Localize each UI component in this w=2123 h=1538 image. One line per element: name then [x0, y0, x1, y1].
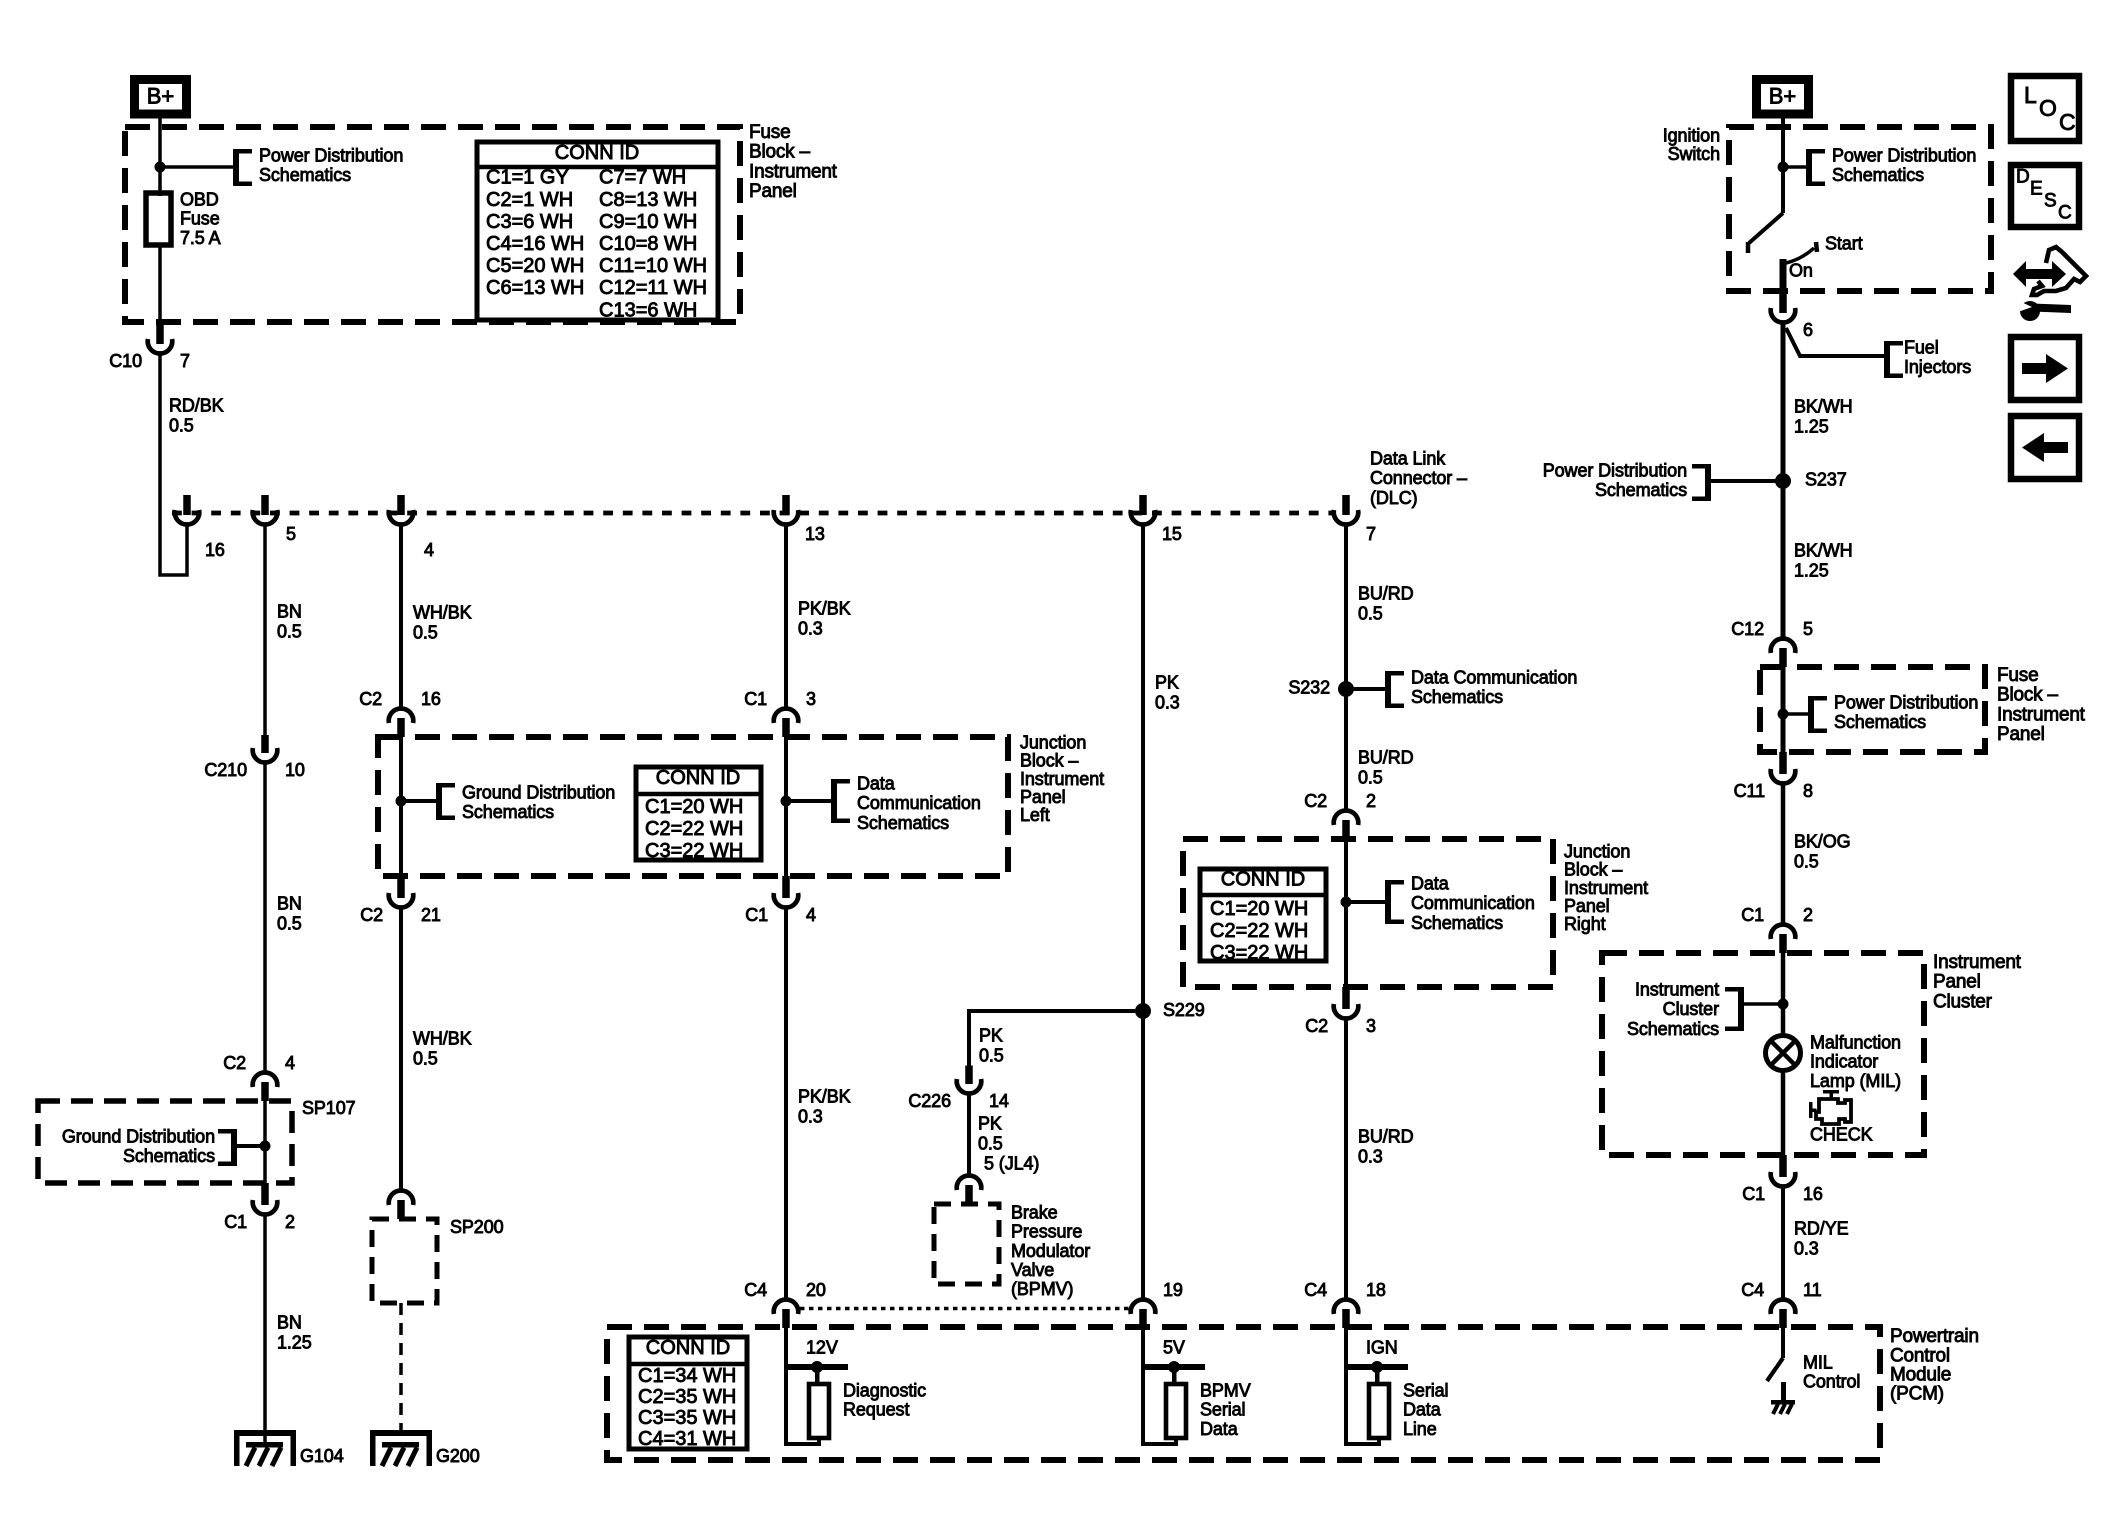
- wire: fuse block right internal: [1781, 667, 1786, 752]
- svg-text:Communication: Communication: [857, 793, 981, 813]
- BPMV component boundary (dotted): [800, 1307, 1130, 1311]
- svg-text:BN: BN: [277, 1312, 302, 1332]
- svg-text:Panel: Panel: [749, 181, 797, 202]
- connector into SP200: [397, 1200, 405, 1219]
- svg-text:Fuel: Fuel: [1904, 337, 1939, 357]
- icon: component view (double arrow, outline, wrench): [2013, 261, 2066, 287]
- DLC pin 5 connector: [261, 495, 269, 515]
- svg-text:OBD: OBD: [180, 189, 219, 209]
- connector C2 pin 4 (into SP107): [261, 1082, 269, 1101]
- svg-text:1.25: 1.25: [1794, 560, 1829, 580]
- svg-text:Valve: Valve: [1011, 1260, 1054, 1280]
- svg-text:Powertrain: Powertrain: [1890, 1326, 1979, 1347]
- svg-text:SP107: SP107: [302, 1098, 356, 1118]
- DLC pin 16 connector: [183, 495, 191, 515]
- wire: ignition feed to reference: [1783, 165, 1806, 169]
- reference: Power Distribution Schematics (fuse block): [233, 149, 239, 186]
- svg-text:Connector –: Connector –: [1370, 468, 1467, 488]
- svg-text:Control: Control: [1890, 1345, 1950, 1366]
- svg-text:2: 2: [1803, 905, 1813, 925]
- svg-text:C210: C210: [204, 760, 247, 780]
- svg-text:CONN ID: CONN ID: [656, 767, 740, 789]
- svg-text:Schematics: Schematics: [1411, 687, 1503, 707]
- wire: feed junction to reference bracket: [160, 165, 233, 169]
- svg-text:C1=20 WH: C1=20 WH: [645, 796, 743, 818]
- svg-text:BU/RD: BU/RD: [1358, 1126, 1414, 1146]
- svg-text:0.5: 0.5: [978, 1133, 1003, 1153]
- CONN ID table (fuse block - instrument panel): [477, 142, 718, 320]
- svg-text:Instrument: Instrument: [1020, 769, 1104, 789]
- wire BN 1.25: C1 to ground G104: [263, 1216, 267, 1446]
- splice block SP107 box (dashed): [38, 1101, 292, 1183]
- svg-text:C5=20 WH: C5=20 WH: [486, 255, 584, 277]
- svg-text:7.5 A: 7.5 A: [180, 228, 221, 248]
- svg-text:C1: C1: [224, 1212, 247, 1232]
- wire RD/YE: C1 pin 16 to C4 pin 11: [1781, 1188, 1785, 1299]
- svg-text:C6=13 WH: C6=13 WH: [486, 277, 584, 299]
- svg-text:0.5: 0.5: [1794, 851, 1819, 871]
- svg-text:C4: C4: [744, 1280, 767, 1300]
- wire BU/RD: DLC pin 7 to splice S232: [1344, 525, 1348, 689]
- svg-text:C1=20 WH: C1=20 WH: [1210, 898, 1308, 920]
- svg-text:Ignition: Ignition: [1663, 125, 1720, 145]
- wire BN: DLC pin 5 to C210: [263, 525, 267, 735]
- svg-text:C3=22 WH: C3=22 WH: [1210, 942, 1308, 964]
- svg-text:L: L: [2024, 82, 2037, 108]
- junction: ground distribution tap: [396, 796, 407, 807]
- svg-text:RD/BK: RD/BK: [169, 395, 224, 415]
- svg-text:Schematics: Schematics: [1834, 712, 1926, 732]
- brake pressure modulator valve box (dashed): [934, 1204, 999, 1284]
- svg-text:Injectors: Injectors: [1904, 357, 1971, 377]
- terminal: Serial Data Line (pin 18): [1347, 1364, 1408, 1370]
- svg-text:Diagnostic: Diagnostic: [843, 1380, 926, 1400]
- svg-text:B+: B+: [1769, 84, 1797, 109]
- reference: Data Communication Schematics (junction block left): [786, 799, 831, 803]
- svg-text:0.3: 0.3: [798, 618, 823, 638]
- svg-text:16: 16: [421, 689, 441, 709]
- svg-text:Power Distribution: Power Distribution: [1834, 692, 1978, 712]
- terminal: Diagnostic Request (pin 20): [787, 1364, 848, 1370]
- svg-text:2: 2: [1366, 791, 1376, 811]
- svg-text:C11: C11: [1734, 781, 1765, 801]
- wire: junction block right internal: [1344, 839, 1348, 987]
- svg-text:RD/YE: RD/YE: [1794, 1218, 1849, 1238]
- svg-text:(PCM): (PCM): [1890, 1384, 1944, 1405]
- svg-text:PK/BK: PK/BK: [798, 1086, 851, 1106]
- wire BK/OG: C11 pin 8 to C1 pin 2: [1781, 785, 1786, 924]
- reference: Data Communication Schematics (S232): [1353, 687, 1385, 691]
- svg-text:16: 16: [1803, 1184, 1823, 1204]
- connector C4 pin 18 (into PCM/DLC): [1342, 1309, 1350, 1328]
- svg-text:C2: C2: [360, 905, 383, 925]
- svg-text:C4: C4: [1741, 1280, 1764, 1300]
- svg-text:Block –: Block –: [1020, 751, 1078, 771]
- svg-text:Data: Data: [1200, 1419, 1239, 1439]
- svg-text:Instrument: Instrument: [1564, 878, 1648, 898]
- svg-text:C4=31 WH: C4=31 WH: [638, 1428, 736, 1450]
- svg-text:S237: S237: [1805, 469, 1847, 489]
- svg-text:Data Link: Data Link: [1370, 448, 1446, 468]
- svg-text:Schematics: Schematics: [462, 802, 554, 822]
- svg-text:Fuse: Fuse: [1997, 665, 2038, 686]
- svg-text:Junction: Junction: [1564, 841, 1630, 861]
- svg-text:BN: BN: [277, 893, 302, 913]
- svg-text:Fuse: Fuse: [180, 209, 220, 229]
- svg-text:5V: 5V: [1163, 1337, 1185, 1357]
- junction: fuse block tap: [1778, 709, 1789, 720]
- svg-text:C1=34 WH: C1=34 WH: [638, 1365, 736, 1387]
- ground G104: [234, 1430, 296, 1436]
- junction: data communication tap (right): [1341, 897, 1352, 908]
- wire PK/BK: DLC pin 13 to C1 pin 3: [784, 525, 788, 708]
- svg-text:0.5: 0.5: [413, 1048, 438, 1068]
- svg-text:C2: C2: [1305, 1016, 1328, 1036]
- svg-text:Block –: Block –: [1997, 685, 2059, 706]
- svg-text:PK: PK: [978, 1113, 1002, 1133]
- svg-text:C2=35 WH: C2=35 WH: [638, 1386, 736, 1408]
- connector C210 pin 10: [261, 735, 269, 753]
- svg-text:C12=11 WH: C12=11 WH: [599, 277, 707, 299]
- svg-text:C10=8 WH: C10=8 WH: [599, 233, 697, 255]
- svg-text:Instrument: Instrument: [1997, 704, 2086, 725]
- DLC pin 7 connector: [1342, 495, 1350, 515]
- icon: arrow right box: [2011, 337, 2079, 400]
- svg-text:0.5: 0.5: [277, 621, 302, 641]
- connector C2 pin 3 (below junction block right): [1342, 987, 1350, 1009]
- wire: MIL lamp to C1 pin 16: [1781, 1071, 1786, 1155]
- wire RD/BK: C10 to DLC pin 16: [160, 354, 187, 575]
- wire: OBD fuse to connector C10: [158, 245, 162, 322]
- svg-text:C1: C1: [1741, 905, 1764, 925]
- svg-text:C1: C1: [1742, 1184, 1765, 1204]
- svg-text:Power Distribution: Power Distribution: [1832, 145, 1976, 165]
- connector C1 pin 2 (into instrument cluster): [1779, 934, 1787, 953]
- reference: Power Distribution Schematics (fuse block right): [1783, 712, 1808, 716]
- svg-text:C3=6 WH: C3=6 WH: [486, 211, 573, 233]
- svg-text:2: 2: [285, 1212, 295, 1232]
- splice S232: [1338, 681, 1354, 697]
- svg-text:C4=16 WH: C4=16 WH: [486, 233, 584, 255]
- svg-text:O: O: [2039, 95, 2057, 121]
- svg-text:0.5: 0.5: [413, 622, 438, 642]
- malfunction indicator lamp (MIL) symbol: [1766, 1036, 1801, 1071]
- svg-text:6: 6: [1803, 320, 1813, 340]
- svg-text:C3=35 WH: C3=35 WH: [638, 1407, 736, 1429]
- svg-text:E: E: [2030, 179, 2042, 200]
- svg-text:Instrument: Instrument: [749, 161, 838, 182]
- wire: B+ to ignition switch contact: [1781, 114, 1785, 213]
- junction block - instrument panel right box (dashed): [1183, 839, 1553, 987]
- svg-text:14: 14: [989, 1091, 1009, 1111]
- svg-text:Left: Left: [1020, 805, 1050, 825]
- svg-text:Ground Distribution: Ground Distribution: [462, 782, 615, 802]
- wire WH/BK: C2 pin 21 to SP200: [399, 909, 403, 1190]
- svg-text:Instrument: Instrument: [1933, 952, 2022, 973]
- svg-text:Data: Data: [1403, 1400, 1442, 1420]
- powertrain control module (PCM) box (dashed): [607, 1327, 1880, 1460]
- svg-text:C4: C4: [1304, 1280, 1327, 1300]
- junction: data communication tap (left): [781, 796, 792, 807]
- svg-text:BU/RD: BU/RD: [1358, 583, 1414, 603]
- instrument panel cluster box (dashed): [1602, 953, 1924, 1155]
- svg-text:Ground Distribution: Ground Distribution: [62, 1126, 215, 1146]
- reference: Fuel Injectors: [1884, 341, 1890, 378]
- CONN ID table (junction block left): [636, 767, 761, 860]
- reference: Data Communication Schematics (junction block right): [1346, 900, 1385, 904]
- svg-text:C13=6 WH: C13=6 WH: [599, 299, 697, 321]
- svg-text:Schematics: Schematics: [1832, 165, 1924, 185]
- svg-text:4: 4: [285, 1053, 295, 1073]
- svg-text:Line: Line: [1403, 1419, 1437, 1439]
- splice S229: [1135, 1003, 1151, 1019]
- ignition switch output stub: [1780, 259, 1787, 303]
- svg-text:7: 7: [180, 351, 190, 371]
- wire PK: DLC pin 15 to splice S229: [1141, 525, 1145, 1011]
- svg-text:Start: Start: [1825, 233, 1863, 253]
- junction: ignition feed node: [1778, 162, 1789, 173]
- junction: cluster schematics tap: [1778, 999, 1789, 1010]
- svg-text:0.5: 0.5: [1358, 603, 1383, 623]
- fuse block - instrument panel box right (dashed): [1760, 667, 1985, 752]
- DLC pin 4 connector: [397, 495, 405, 515]
- CONN ID table (junction block right): [1200, 869, 1326, 961]
- svg-text:Serial: Serial: [1403, 1380, 1448, 1400]
- svg-text:3: 3: [1366, 1016, 1376, 1036]
- svg-text:S232: S232: [1288, 677, 1330, 697]
- svg-text:0.5: 0.5: [979, 1045, 1004, 1065]
- dashed wire: SP200 to ground G200: [399, 1303, 403, 1444]
- wire WH/BK: DLC pin 4 to C2 pin 16: [399, 525, 403, 708]
- svg-text:Schematics: Schematics: [1595, 480, 1687, 500]
- svg-text:BK/WH: BK/WH: [1794, 396, 1853, 416]
- splice S237: [1775, 473, 1791, 489]
- connector C11 pin 8 (below fuse block): [1779, 752, 1787, 774]
- svg-text:Block –: Block –: [1564, 860, 1622, 880]
- svg-text:PK: PK: [979, 1025, 1003, 1045]
- reference: Ground Distribution Schematics (junction block): [401, 799, 436, 803]
- CONN ID table (DLC): [629, 1337, 747, 1449]
- connector C2 pin 16 (into junction block left): [397, 718, 405, 737]
- svg-text:C: C: [2059, 109, 2076, 135]
- svg-text:C9=10 WH: C9=10 WH: [599, 211, 697, 233]
- svg-text:Fuse: Fuse: [749, 122, 790, 143]
- svg-text:Module: Module: [1890, 1365, 1951, 1386]
- svg-text:C2=22 WH: C2=22 WH: [645, 818, 743, 840]
- svg-text:1.25: 1.25: [1794, 416, 1829, 436]
- fuse: OBD Fuse 7.5 A: [146, 193, 171, 245]
- junction: fuse feed node: [155, 162, 166, 173]
- svg-text:Schematics: Schematics: [259, 165, 351, 185]
- svg-text:Panel: Panel: [1933, 972, 1981, 993]
- svg-text:Schematics: Schematics: [123, 1146, 215, 1166]
- icon: LOC box: [2011, 76, 2079, 141]
- connector pin 6 (ignition output): [1779, 291, 1787, 313]
- svg-text:C11=10 WH: C11=10 WH: [599, 255, 707, 277]
- splice block SP200 box (dashed): [372, 1219, 437, 1303]
- wire: cluster feed to MIL lamp: [1781, 953, 1786, 1036]
- svg-text:C2=22 WH: C2=22 WH: [1210, 920, 1308, 942]
- svg-text:Data: Data: [857, 773, 896, 793]
- svg-text:CONN ID: CONN ID: [555, 142, 639, 164]
- svg-text:0.3: 0.3: [1358, 1146, 1383, 1166]
- wire BU/RD: S232 to C2 pin 2: [1344, 689, 1348, 810]
- svg-text:C2: C2: [1304, 791, 1327, 811]
- svg-text:IGN: IGN: [1366, 1337, 1398, 1357]
- svg-text:Schematics: Schematics: [1627, 1019, 1719, 1039]
- wire BK/WH: pin 6 to C12 pin 5: [1781, 324, 1786, 638]
- icon: arrow left box: [2011, 416, 2079, 479]
- svg-text:Control: Control: [1803, 1372, 1860, 1392]
- battery positive voltage terminal B+ (left): [135, 80, 187, 115]
- svg-text:C1=1 GY: C1=1 GY: [486, 167, 569, 189]
- svg-text:G200: G200: [436, 1446, 480, 1466]
- svg-text:Schematics: Schematics: [1411, 913, 1503, 933]
- wire: junction block left internal (data leg): [784, 737, 788, 876]
- svg-text:5 (JL4): 5 (JL4): [984, 1153, 1039, 1173]
- svg-text:C1: C1: [745, 905, 768, 925]
- svg-text:On: On: [1789, 260, 1813, 280]
- wire PK: S229 branch to C226: [969, 1011, 1143, 1066]
- svg-text:SP200: SP200: [450, 1217, 504, 1237]
- svg-text:C2: C2: [359, 689, 382, 709]
- svg-text:Lamp (MIL): Lamp (MIL): [1810, 1071, 1901, 1091]
- svg-text:Request: Request: [843, 1400, 909, 1420]
- ignition switch blade: [1749, 213, 1783, 243]
- connector C10 pin 7: [156, 322, 164, 344]
- icon: DESC box: [2011, 165, 2079, 227]
- fuse block - instrument panel component box (dashed): [125, 127, 740, 322]
- svg-text:5: 5: [1803, 619, 1813, 639]
- svg-text:0.3: 0.3: [798, 1106, 823, 1126]
- connector BPMV pin 5: [965, 1185, 973, 1204]
- svg-text:18: 18: [1366, 1280, 1386, 1300]
- connector pin 19 (into PCM/DLC): [1139, 1309, 1147, 1328]
- svg-text:PK: PK: [1155, 672, 1179, 692]
- svg-text:0.3: 0.3: [1794, 1238, 1819, 1258]
- svg-text:CONN ID: CONN ID: [1221, 869, 1305, 891]
- svg-text:BU/RD: BU/RD: [1358, 747, 1414, 767]
- svg-text:G104: G104: [300, 1446, 344, 1466]
- svg-text:3: 3: [806, 689, 816, 709]
- svg-text:Right: Right: [1564, 914, 1606, 934]
- svg-text:7: 7: [1366, 524, 1376, 544]
- wire PK: S229 to pin 19: [1141, 1011, 1145, 1299]
- svg-text:8: 8: [1803, 781, 1813, 801]
- ignition switch box (dashed): [1729, 127, 1991, 291]
- svg-text:C3=22 WH: C3=22 WH: [645, 840, 743, 862]
- reference: Power Distribution Schematics (ignition): [1806, 149, 1812, 186]
- svg-text:WH/BK: WH/BK: [413, 602, 472, 622]
- wire BN: C210 to C2 pin 4: [263, 764, 267, 1072]
- junction block - instrument panel left box (dashed): [378, 737, 1008, 876]
- svg-text:Panel: Panel: [1564, 896, 1610, 916]
- connector C2 pin 2 (into junction block right): [1342, 820, 1350, 839]
- svg-text:16: 16: [205, 540, 225, 560]
- svg-text:BN: BN: [277, 601, 302, 621]
- connector C1 pin 4 (below junction block left): [782, 876, 790, 898]
- svg-text:Modulator: Modulator: [1011, 1241, 1090, 1261]
- wire BU/RD: C2 pin 3 to C4 pin 18: [1344, 1020, 1348, 1299]
- data link connector bus (dashed component edge): [172, 511, 1335, 516]
- ground (MIL control): [1771, 1400, 1795, 1405]
- svg-text:(BPMV): (BPMV): [1011, 1279, 1073, 1299]
- svg-text:Malfunction: Malfunction: [1810, 1032, 1901, 1052]
- wire: B+ down to feed junction: [158, 114, 162, 167]
- svg-text:Schematics: Schematics: [857, 813, 949, 833]
- connector C4 pin 11 (into PCM): [1779, 1309, 1787, 1328]
- wire PK/BK: C1 pin 4 to C4 pin 20: [784, 909, 788, 1299]
- svg-text:(DLC): (DLC): [1370, 488, 1418, 508]
- svg-text:0.5: 0.5: [1358, 767, 1383, 787]
- svg-text:MIL: MIL: [1803, 1352, 1833, 1372]
- connector C2 pin 21 (below junction block left): [397, 876, 405, 898]
- DLC pin 15 connector: [1139, 495, 1147, 515]
- svg-text:Data: Data: [1411, 873, 1450, 893]
- svg-text:C2=1 WH: C2=1 WH: [486, 189, 573, 211]
- terminal: BPMV Serial Data (pin 19): [1144, 1364, 1205, 1370]
- wire PK: C226 to BPMV pin 5: [967, 1095, 971, 1175]
- svg-text:Switch: Switch: [1668, 144, 1720, 164]
- connector C226 pin 14: [965, 1066, 973, 1085]
- wire: junction block left internal (ground leg): [399, 737, 403, 876]
- connector C1 pin 16 (below cluster): [1779, 1155, 1787, 1177]
- svg-text:CHECK: CHECK: [1810, 1124, 1873, 1144]
- svg-text:Block –: Block –: [749, 142, 811, 163]
- svg-text:15: 15: [1162, 524, 1182, 544]
- svg-text:C12: C12: [1731, 619, 1764, 639]
- svg-text:Panel: Panel: [1020, 787, 1066, 807]
- battery positive voltage terminal B+ (right): [1757, 80, 1809, 115]
- svg-text:Power Distribution: Power Distribution: [259, 145, 403, 165]
- ignition switch start position arc: [1786, 248, 1814, 263]
- svg-text:Indicator: Indicator: [1810, 1052, 1878, 1072]
- svg-text:Cluster: Cluster: [1933, 991, 1993, 1012]
- svg-text:C2: C2: [223, 1053, 246, 1073]
- svg-text:0.5: 0.5: [169, 415, 194, 435]
- connector C1 pin 3 (into junction block left): [782, 718, 790, 737]
- svg-text:13: 13: [805, 524, 825, 544]
- ground G200: [370, 1430, 432, 1436]
- svg-text:S: S: [2044, 191, 2056, 212]
- svg-text:BK/WH: BK/WH: [1794, 540, 1853, 560]
- svg-text:Junction: Junction: [1020, 732, 1086, 752]
- svg-text:WH/BK: WH/BK: [413, 1028, 472, 1048]
- svg-text:Cluster: Cluster: [1663, 999, 1719, 1019]
- svg-text:B+: B+: [147, 84, 175, 109]
- connector C1 pin 2 (below SP107): [261, 1183, 269, 1205]
- svg-text:12V: 12V: [806, 1337, 838, 1357]
- connector C4 pin 20 (into PCM/DLC): [782, 1309, 790, 1328]
- svg-text:Panel: Panel: [1997, 724, 2045, 745]
- svg-text:S229: S229: [1163, 1000, 1205, 1020]
- MIL control switch: [1781, 1328, 1785, 1358]
- svg-text:Pressure: Pressure: [1011, 1222, 1082, 1242]
- svg-text:5: 5: [286, 524, 296, 544]
- svg-text:BPMV: BPMV: [1200, 1380, 1251, 1400]
- svg-text:C8=13 WH: C8=13 WH: [599, 189, 697, 211]
- svg-text:10: 10: [285, 760, 305, 780]
- svg-text:4: 4: [424, 540, 434, 560]
- svg-text:C10: C10: [109, 351, 142, 371]
- svg-text:0.5: 0.5: [277, 913, 302, 933]
- svg-text:C7=7 WH: C7=7 WH: [599, 167, 686, 189]
- svg-text:21: 21: [421, 905, 441, 925]
- svg-text:C1: C1: [744, 689, 767, 709]
- svg-text:20: 20: [806, 1280, 826, 1300]
- svg-text:19: 19: [1163, 1280, 1183, 1300]
- connector C12 pin 5 (into fuse block): [1779, 648, 1787, 667]
